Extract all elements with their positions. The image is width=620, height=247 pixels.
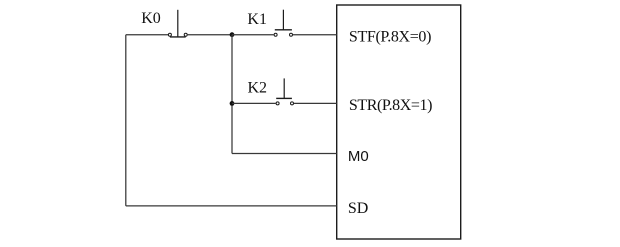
node B junction dot on branch at STR level xyxy=(230,101,235,106)
push button K1 (normally open) xyxy=(274,10,292,37)
wire: top rail from K0 right contact to junction A xyxy=(188,34,232,36)
push button K2 (normally open) xyxy=(276,78,293,105)
svg-text:M0: M0 xyxy=(348,148,369,165)
svg-text:STF(P.8X=0): STF(P.8X=0) xyxy=(349,29,432,46)
wire: bottom SD wire xyxy=(126,205,337,207)
wire: from node B to K2 left contact xyxy=(232,102,276,104)
node A junction dot xyxy=(230,32,235,37)
wire: top rail from junction A to K1 left contact xyxy=(232,34,274,36)
controller box U1 xyxy=(337,5,461,239)
svg-text:STR(P.8X=1): STR(P.8X=1) xyxy=(349,97,433,114)
svg-text:K0: K0 xyxy=(141,10,161,27)
wire: K2 right contact to STR input of box xyxy=(294,102,337,104)
svg-text:SD: SD xyxy=(348,200,368,217)
wire: branch vertical from node A down to M0 corner xyxy=(231,35,233,154)
wire: left rail vertical xyxy=(125,35,127,206)
svg-text:K2: K2 xyxy=(248,80,268,97)
wire: K1 right contact to STF input of box xyxy=(293,34,337,36)
wire: M0 wire from branch corner to box xyxy=(232,153,337,155)
wire: top rail from left corner to K0 left contact xyxy=(126,34,168,36)
svg-text:K1: K1 xyxy=(247,11,267,28)
push button K0 (normally closed) xyxy=(168,10,187,37)
